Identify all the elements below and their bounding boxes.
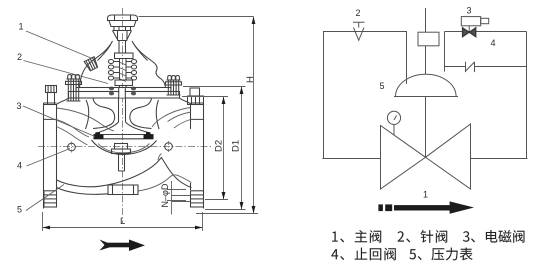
svg-text:D1: D1	[231, 140, 242, 152]
svg-text:2: 2	[356, 8, 361, 18]
svg-text:3: 3	[17, 101, 22, 111]
svg-text:1: 1	[423, 190, 428, 200]
svg-text:3: 3	[467, 6, 472, 16]
svg-text:4: 4	[17, 161, 22, 171]
svg-text:L: L	[120, 216, 125, 227]
svg-text:5: 5	[17, 205, 22, 215]
svg-text:N–φD: N–φD	[160, 183, 170, 207]
svg-text:4: 4	[491, 38, 496, 48]
svg-text:2: 2	[17, 52, 22, 62]
svg-text:D2: D2	[214, 140, 225, 152]
svg-text:5: 5	[380, 81, 385, 91]
svg-text:1: 1	[19, 22, 24, 32]
svg-text:H: H	[245, 76, 256, 83]
